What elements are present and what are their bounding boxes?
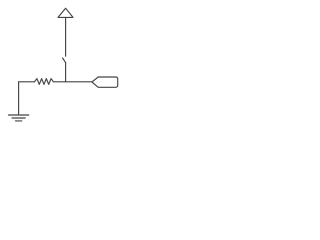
wire horizontal right section (53, 81, 92, 83)
switch blade (63, 58, 66, 62)
net tag / port (92, 77, 118, 87)
wire horizontal left section (19, 81, 35, 83)
power symbol (triangle) (58, 8, 73, 17)
wire to ground (18, 82, 20, 115)
ground (8, 115, 28, 121)
resistor (35, 79, 54, 85)
wire from power to switch (65, 17, 67, 56)
wire from switch to junction (65, 62, 67, 82)
